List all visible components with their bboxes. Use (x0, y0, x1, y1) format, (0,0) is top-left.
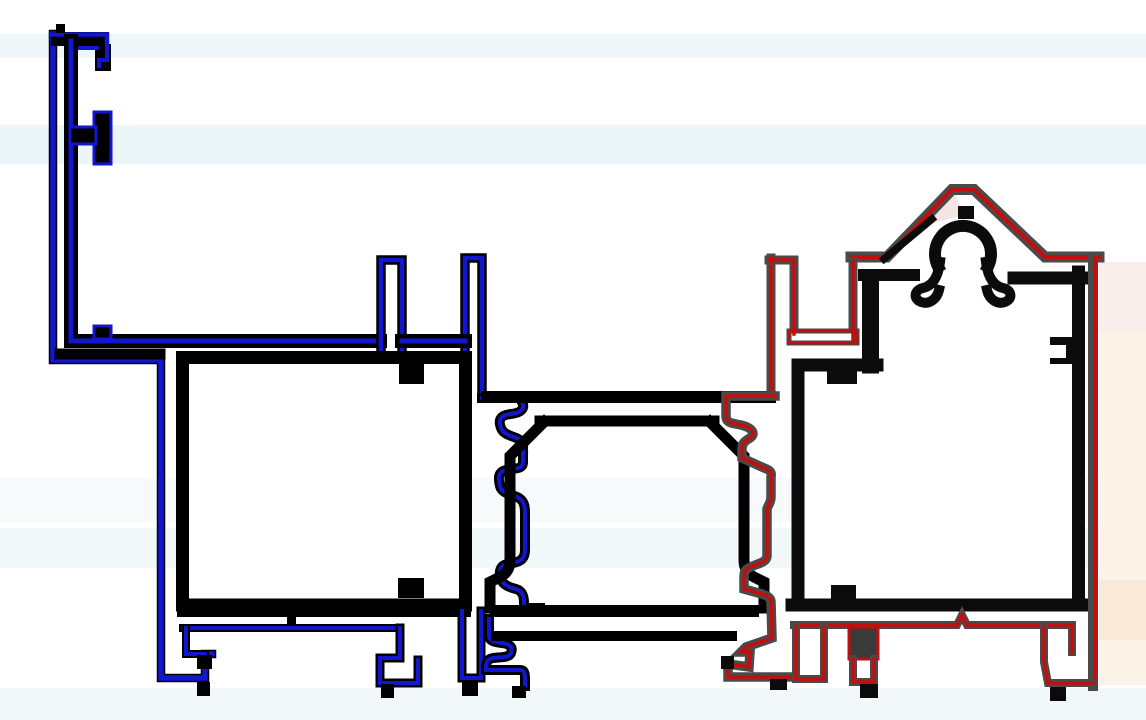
left profile hook1 body (95, 44, 111, 71)
left flange tick (287, 610, 296, 627)
left wiggle tick (512, 686, 526, 698)
left box bottom tab (398, 578, 424, 598)
right body interior white (798, 272, 1085, 605)
left profile prong2 shadow (465, 258, 482, 398)
right upstand hairpin red (769, 258, 853, 394)
background band 2 (0, 125, 1146, 164)
left flange left drop shadow (186, 628, 205, 654)
left profile inner vertical blue (71, 41, 380, 341)
left mid foot shadow (380, 628, 418, 683)
background band 4 (0, 528, 1146, 568)
right foot2 tick (860, 684, 878, 698)
left profile top tab (56, 24, 65, 33)
background peach patch right (1099, 580, 1146, 640)
left foot tick1 (197, 655, 212, 669)
left profile hook2 arm (70, 127, 96, 144)
background band 1 (0, 34, 1146, 58)
right body shelf tab (827, 371, 857, 384)
right roof shadow (851, 190, 1099, 258)
right foot2 block (849, 627, 878, 659)
right wiggle tick (721, 656, 734, 669)
right pink roof fill (880, 193, 963, 258)
left profile hook1 arm (71, 46, 97, 50)
left profile inter-prong line shadow (402, 334, 465, 348)
right ornament shelf right (1014, 272, 1085, 285)
left flange shadow (183, 624, 400, 632)
right ornament left curl (916, 262, 940, 303)
right body notch tab (1050, 337, 1074, 364)
right gasket wiggle red (726, 396, 793, 677)
left column foot shadow (462, 611, 481, 678)
right foot2 legs shadow (853, 659, 874, 682)
right foot1 red (796, 627, 824, 679)
right flange red (794, 615, 1072, 652)
right ornament apex tab (958, 206, 974, 219)
middle bottom bar2 (496, 631, 732, 641)
left profile hook2 cap (94, 112, 111, 164)
trapezoid left side (490, 422, 544, 608)
left profile inner vertical shadow (71, 41, 380, 341)
right ornament right curl (986, 262, 1010, 303)
right body notch white (1050, 345, 1066, 358)
right outer skin red (1094, 258, 1098, 686)
background band 5 (0, 688, 1146, 720)
left profile top bar black fill (51, 32, 109, 46)
left profile outer contour blue (53, 34, 212, 678)
right foot3 red (1044, 628, 1093, 683)
left profile prong1 shadow (381, 260, 402, 350)
left box top tab (399, 364, 424, 384)
left profile top bar blue edge (51, 35, 107, 68)
trapezoid right side (710, 422, 764, 608)
left box (183, 358, 466, 606)
middle top bar (487, 391, 770, 403)
right body left wall (792, 365, 805, 605)
left column foot tick (462, 682, 478, 696)
left gasket wiggle shadow (482, 398, 540, 686)
background beige strip right (1099, 262, 1146, 685)
left mid foot tick (381, 684, 394, 698)
right flange shadow (794, 615, 1072, 652)
trapezoid top (540, 416, 714, 427)
right ornament omega arc (935, 226, 991, 267)
right body top-left shelf (798, 359, 877, 372)
right body right inner wall (1072, 272, 1085, 605)
right roof red (851, 190, 1099, 258)
right gasket wiggle shadow (726, 396, 793, 677)
right foot3 shadow (1044, 628, 1093, 683)
right ornament inner diagonal (884, 219, 932, 259)
left mid foot blue (380, 628, 418, 683)
left profile outer contour shadow (53, 34, 212, 678)
right body raised wall (862, 278, 879, 365)
left profile prong1 blue (381, 260, 402, 350)
left profile hook1 blue lip (99, 36, 107, 66)
left gasket wiggle blue (482, 398, 540, 686)
right body bottom tab (831, 585, 856, 599)
left profile bump on inner line (94, 326, 111, 339)
right foot1 shadow (796, 627, 824, 679)
left flange blue (183, 626, 400, 630)
right upstand hairpin shadow (769, 258, 853, 394)
left column foot blue (462, 611, 481, 678)
left flange left drop blue (186, 628, 205, 654)
left profile prong2 blue (465, 258, 482, 398)
right foot2 legs red (853, 659, 874, 682)
right foot3 tick (1050, 687, 1066, 701)
right body bottom bar (792, 599, 1085, 612)
right ornament shelf left (864, 269, 914, 281)
middle bottom bar1 (496, 605, 753, 617)
background band 3 (0, 478, 1146, 522)
left profile inter-prong line blue (402, 339, 465, 344)
right outer skin shadow (1088, 260, 1098, 686)
